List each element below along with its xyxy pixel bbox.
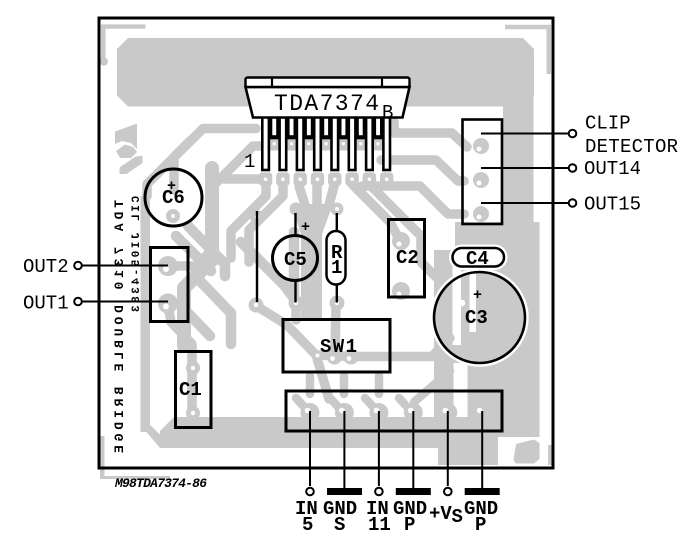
svg-text:OUT14: OUT14 bbox=[584, 158, 641, 180]
svg-text:M98TDA7374-86: M98TDA7374-86 bbox=[114, 476, 207, 491]
svg-text:P: P bbox=[475, 514, 486, 536]
svg-text:11: 11 bbox=[368, 514, 391, 536]
svg-text:+V: +V bbox=[429, 503, 452, 525]
svg-text:5: 5 bbox=[302, 514, 313, 536]
svg-text:+: + bbox=[167, 178, 176, 195]
svg-text:OUT1: OUT1 bbox=[23, 293, 69, 315]
svg-text:C4: C4 bbox=[466, 248, 489, 270]
svg-text:CLIP: CLIP bbox=[585, 113, 631, 135]
svg-text:SW1: SW1 bbox=[320, 336, 357, 358]
svg-text:C2: C2 bbox=[396, 247, 419, 269]
svg-text:1: 1 bbox=[244, 151, 255, 173]
svg-text:C1: C1 bbox=[179, 379, 202, 401]
svg-text:C5: C5 bbox=[284, 249, 307, 271]
svg-text:P: P bbox=[404, 514, 415, 536]
svg-text:DETECTOR: DETECTOR bbox=[585, 136, 678, 158]
svg-text:OUT2: OUT2 bbox=[23, 256, 69, 278]
svg-text:+: + bbox=[473, 287, 482, 304]
svg-text:C3: C3 bbox=[465, 307, 488, 329]
svg-text:S: S bbox=[334, 514, 345, 536]
svg-text:+: + bbox=[301, 219, 310, 236]
svg-text:S: S bbox=[452, 506, 463, 528]
svg-text:B: B bbox=[382, 102, 393, 124]
svg-text:1: 1 bbox=[331, 257, 342, 279]
svg-text:OUT15: OUT15 bbox=[584, 194, 641, 216]
svg-text:TDA7374: TDA7374 bbox=[274, 91, 379, 117]
